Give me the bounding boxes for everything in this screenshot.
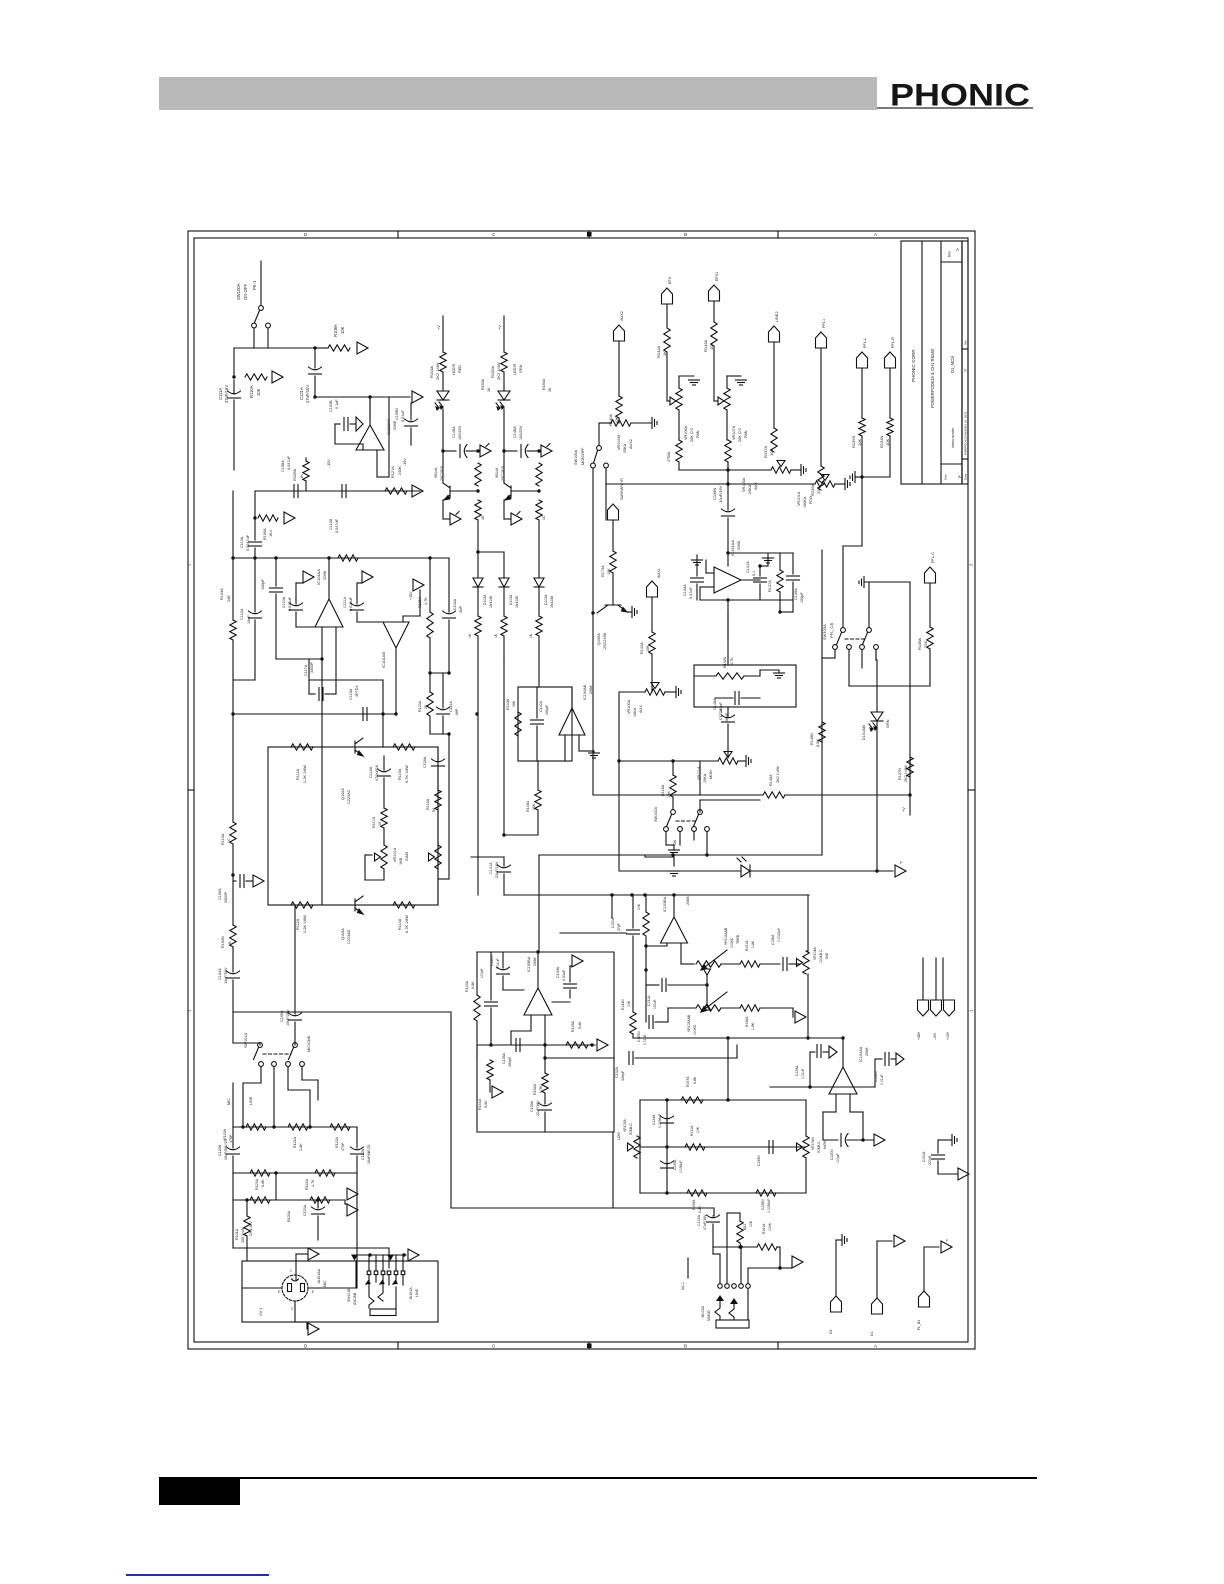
wire EQ row 3 — [640, 1192, 806, 1194]
resistor below base R105A — [536, 500, 542, 520]
ground pot y423 — [651, 418, 653, 429]
switch SW105A wires — [605, 468, 607, 484]
svg-text:R121A: R121A — [293, 1136, 297, 1148]
svg-text:R124A: R124A — [305, 1178, 309, 1190]
svg-text:0.0047uF: 0.0047uF — [246, 534, 250, 551]
svg-text:4-7K: 4-7K — [311, 1179, 315, 1187]
switch SW102A contact 3 — [692, 827, 697, 832]
diode column x478 — [473, 578, 483, 587]
wire XLR pin E left — [242, 1287, 282, 1289]
junction LED102A cathode — [502, 449, 505, 452]
fb box IC131AA — [694, 665, 796, 707]
svg-text:4-7K: 4-7K — [424, 597, 428, 605]
box IC105 bottom — [477, 1131, 614, 1133]
svg-text:R105A: R105A — [490, 365, 495, 378]
svg-text:G2: G2 — [829, 1329, 833, 1334]
resistor R144A — [649, 632, 655, 654]
svg-text:10K: 10K — [696, 1126, 700, 1133]
jack2 pin 1 — [718, 1284, 723, 1289]
svg-text:R151A: R151A — [745, 940, 749, 951]
resistor R106A — [305, 458, 307, 461]
svg-text:HIGH: HIGH — [823, 1140, 827, 1149]
XLR connector CH1 — [282, 1275, 308, 1301]
pentagon G1 — [872, 1298, 883, 1314]
capacitor C130A — [564, 983, 577, 985]
svg-text:C110A: C110A — [329, 518, 333, 530]
arrow C130A — [572, 955, 583, 967]
svg-text:AUX2: AUX2 — [629, 439, 633, 449]
svg-text:2068: 2068 — [865, 1048, 869, 1056]
svg-text:R110A: R110A — [249, 385, 254, 398]
trimmer VR106A wiper — [670, 397, 676, 405]
svg-text:20KA: 20KA — [748, 484, 752, 494]
svg-text:470P: 470P — [229, 1134, 233, 1143]
svg-text:100K: 100K — [768, 1222, 772, 1231]
svg-text:220uF: 220uF — [928, 1155, 932, 1165]
arrow XLR top — [308, 1248, 319, 1260]
IC105BA input wires — [530, 1015, 532, 1031]
wire XLR pin1 — [295, 1254, 297, 1280]
capacitor C139B2 — [768, 1141, 770, 1154]
svg-text:IC103BA: IC103BA — [663, 896, 667, 912]
ground y875 — [669, 870, 680, 872]
arrow small IC101AA — [303, 571, 314, 583]
svg-text:C142A: C142A — [539, 700, 543, 712]
resistor R125A — [250, 1197, 270, 1203]
svg-text:GRN: GRN — [886, 719, 890, 728]
svg-text:R113A: R113A — [221, 833, 225, 845]
wire jack2 pin2 long — [726, 1213, 728, 1283]
wire IC101AA in1 — [321, 627, 323, 659]
svg-text:IC101AB: IC101AB — [381, 652, 386, 668]
svg-text:C129A: C129A — [795, 1065, 799, 1076]
svg-text:22uF/16V: 22uF/16V — [495, 861, 499, 878]
svg-text:R118A: R118A — [661, 784, 665, 796]
resistor R160A — [737, 1221, 743, 1243]
svg-text:R121A: R121A — [391, 466, 395, 478]
switch SW103A link — [845, 638, 866, 640]
switch SW103A contact 3 — [860, 645, 865, 650]
svg-text:VR103AAB: VR103AAB — [687, 1014, 691, 1032]
capacitor C141A — [504, 450, 517, 452]
wire x612 stub — [611, 895, 613, 918]
wire x619 long vertical — [618, 692, 620, 871]
jack long contact 1 — [369, 1284, 374, 1308]
wire x295 column — [294, 905, 296, 1014]
arrow y1045 — [597, 1039, 608, 1051]
svg-text:+48V: +48V — [917, 1031, 921, 1040]
svg-text:of: of — [964, 369, 968, 372]
svg-text:EFX: EFX — [668, 276, 672, 284]
trimmer VR106A — [676, 388, 682, 410]
resistor below diode x539 — [536, 616, 542, 636]
pentagon PL-B — [919, 1291, 930, 1307]
svg-text:2K: 2K — [424, 704, 428, 709]
svg-text:0.01uF: 0.01uF — [801, 1068, 805, 1079]
ground near VR107A — [736, 379, 747, 381]
switch SW102A pivot 2 — [698, 810, 703, 815]
svg-text:D103A: D103A — [544, 594, 548, 605]
svg-text:R123A: R123A — [255, 1178, 259, 1190]
IC103BA inputs — [666, 943, 668, 946]
pot VR102A — [771, 467, 791, 473]
junction Q105A emitter — [591, 611, 594, 614]
svg-text:0.047uF: 0.047uF — [287, 455, 291, 470]
op-amp IC105BA — [524, 988, 552, 1015]
svg-text:0.01uF: 0.01uF — [496, 958, 500, 969]
svg-text:R145A: R145A — [769, 774, 773, 786]
capacitor C136B — [782, 958, 784, 971]
svg-text:4-7K: 4-7K — [730, 657, 734, 665]
drop from bus — [254, 491, 256, 518]
svg-text:2068: 2068 — [686, 897, 690, 905]
inner frame — [194, 238, 968, 1342]
svg-text:C130N: C130N — [556, 966, 560, 978]
switch SW103A contact 4 — [874, 645, 879, 650]
svg-text:D103A: D103A — [509, 594, 513, 605]
wire bus y714 — [233, 713, 396, 715]
svg-text:F: F — [946, 1239, 949, 1243]
switch SW100A wire in — [260, 261, 262, 305]
svg-text:10K: 10K — [749, 1220, 753, 1227]
connector PFL-R — [885, 352, 896, 368]
svg-text:24K: 24K — [227, 595, 231, 602]
arrow 2 near IC134AA — [896, 1053, 904, 1065]
svg-text:R143A: R143A — [465, 980, 469, 992]
jack long contact 2 — [378, 1284, 383, 1301]
svg-text:1-8K: 1-8K — [751, 1022, 755, 1030]
svg-text:C134A: C134A — [652, 1114, 656, 1125]
wire C114A — [442, 673, 444, 708]
connector EFX1 — [709, 285, 720, 301]
svg-text:CH:1: CH:1 — [259, 1308, 263, 1316]
wire fb bottom — [700, 599, 793, 601]
transistor Q102A — [354, 741, 356, 753]
svg-text:R102N: R102N — [221, 936, 225, 948]
ground stub 1 — [835, 1244, 837, 1296]
svg-text:+V: +V — [498, 325, 502, 330]
resistor R154A — [630, 1012, 636, 1034]
capacitor C141B — [754, 577, 767, 579]
capacitor C114B — [356, 599, 358, 604]
svg-text:PFL1: PFL1 — [822, 319, 826, 328]
capacitor C129A — [816, 1045, 818, 1058]
svg-text:5-6K: 5-6K — [484, 1100, 488, 1108]
pot VR101A — [815, 481, 835, 487]
switch SW101A pivot 2 — [293, 1043, 298, 1048]
svg-text:0.0056uF: 0.0056uF — [658, 1114, 662, 1128]
svg-text:4K: 4K — [481, 515, 485, 520]
arrow XLR bottom — [308, 1323, 319, 1335]
resistor R102A — [230, 925, 236, 947]
TRS jack pins — [367, 1271, 371, 1275]
svg-text:VR100A: VR100A — [627, 699, 631, 714]
capacitor C112A — [254, 558, 256, 612]
svg-text:D101AM: D101AM — [862, 725, 866, 740]
wire column R104A — [442, 316, 444, 352]
capacitor C106A — [270, 587, 283, 589]
svg-text:LOW: LOW — [617, 1131, 621, 1140]
capacitor C140A — [443, 450, 456, 452]
svg-text:C141A: C141A — [746, 561, 750, 573]
svg-text:10uF/16V: 10uF/16V — [718, 485, 723, 503]
capacitor C120A — [227, 1147, 240, 1150]
IC102AA input chain — [335, 423, 340, 425]
wire XLR pin3 — [294, 1301, 296, 1322]
svg-text:R108A: R108A — [333, 324, 338, 337]
svg-text:R109A: R109A — [263, 528, 267, 540]
svg-text:R156A: R156A — [745, 1016, 749, 1027]
svg-text:PFL-C: PFL-C — [931, 552, 935, 563]
pot VR104A — [803, 951, 809, 974]
resistor R156A row2 — [721, 1007, 740, 1009]
wire x451 long — [450, 1012, 452, 1208]
svg-text:100KB-C: 100KB-C — [819, 949, 823, 963]
svg-text:C146A: C146A — [513, 426, 517, 438]
svg-text:3: 3 — [291, 1307, 293, 1311]
svg-text:240K: 240K — [398, 466, 402, 475]
svg-text:A: A — [874, 1344, 877, 1349]
svg-text:100uF: 100uF — [719, 702, 723, 713]
switch SW102A link — [676, 820, 696, 822]
pot VR103AAB wiper diag — [701, 992, 727, 1012]
trimmer VR109A — [381, 845, 387, 869]
svg-text:6-8K: 6-8K — [698, 1205, 702, 1213]
resistor R123B ladder — [427, 692, 433, 716]
connector PFL-C — [925, 567, 936, 583]
arrow F1a — [541, 445, 552, 457]
svg-text:C115A: C115A — [349, 688, 353, 700]
switch SW103A pivot 1 — [841, 628, 846, 633]
wire bus y1087 — [770, 1086, 875, 1088]
connector arrow out 1 — [357, 342, 368, 354]
svg-text:50KB-C: 50KB-C — [629, 1123, 633, 1135]
jack sleeve bar — [370, 1309, 396, 1316]
arrow x420 — [413, 579, 424, 591]
capacitor C102B — [343, 418, 345, 431]
resistor R134N — [887, 418, 893, 436]
resistor R120A on bus — [338, 555, 358, 561]
capacitor C143A — [497, 967, 510, 970]
jack contact arrows — [368, 1275, 370, 1281]
wire bus y855 — [539, 854, 822, 856]
svg-text:R150A: R150A — [481, 378, 485, 390]
box IC105 top — [477, 951, 614, 953]
arrow y518 — [284, 512, 295, 524]
fb box around R140B/C142A — [518, 687, 572, 761]
svg-text:20K C/C: 20K C/C — [738, 427, 742, 442]
svg-text:+V: +V — [902, 807, 906, 812]
svg-text:R112A: R112A — [296, 918, 300, 930]
capacitor C121A — [314, 348, 316, 368]
svg-text:G1: G1 — [870, 1331, 874, 1336]
svg-text:22K: 22K — [923, 641, 928, 648]
capacitor C139B under — [544, 1045, 546, 1058]
svg-text:D: D — [304, 1344, 308, 1349]
svg-text:100KA: 100KA — [803, 496, 807, 508]
wire XLR pin E right — [308, 1287, 356, 1289]
resistor R140B — [515, 712, 521, 736]
svg-text:C108A: C108A — [281, 460, 285, 472]
IC134AA inputs — [835, 1094, 837, 1112]
svg-text:2K2 1/4W: 2K2 1/4W — [435, 362, 440, 380]
svg-text:R131A: R131A — [690, 1125, 694, 1136]
pot VR103AAB — [696, 1005, 721, 1011]
capacitor C122A right — [356, 1127, 358, 1148]
wire ladder y734 — [430, 733, 449, 735]
switch SW101A contact 1 — [259, 1062, 264, 1067]
pot VR102AAB — [696, 961, 721, 967]
svg-text:C131A: C131A — [647, 995, 651, 1006]
wire top jog y857 — [471, 856, 504, 858]
svg-text:MIC: MIC — [227, 1098, 231, 1105]
svg-text:AUX: AUX — [639, 705, 643, 713]
wire y1132 — [545, 1131, 613, 1133]
svg-text:6-8K: 6-8K — [693, 1076, 697, 1084]
resistor R142A — [664, 328, 670, 352]
svg-text:SW100A: SW100A — [236, 283, 241, 300]
svg-text:VR102AAB: VR102AAB — [724, 927, 728, 945]
resistor R101A 48V — [246, 1200, 248, 1216]
wire x476 long — [477, 660, 479, 895]
wire bus node A — [234, 347, 315, 349]
op-amp IC101AA — [315, 599, 343, 627]
svg-text:VR103A: VR103A — [742, 477, 746, 492]
svg-text:R137N: R137N — [898, 768, 902, 780]
resistor R101A — [244, 1216, 250, 1236]
svg-text:2-2K 1/8W: 2-2K 1/8W — [303, 915, 307, 933]
LED D102AM — [875, 650, 877, 660]
capacitor C115A — [362, 708, 364, 721]
svg-text:100pF: 100pF — [480, 968, 484, 978]
capacitor C118A — [432, 759, 445, 762]
svg-text:MONO: MONO — [707, 1310, 711, 1321]
wire x808 — [807, 895, 809, 951]
wire IC103BA out — [673, 895, 675, 917]
svg-text:R115A: R115A — [398, 768, 402, 780]
svg-text:R106A: R106A — [292, 468, 297, 481]
svg-text:LINE2: LINE2 — [775, 311, 779, 322]
capacitor C138A — [515, 1039, 517, 1052]
resistor R150B — [246, 1124, 266, 1130]
resistor R132A in box — [716, 673, 744, 679]
capacitor C129B — [645, 985, 647, 1022]
svg-text:Rev: Rev — [948, 251, 952, 257]
capacitor C135A — [691, 577, 704, 579]
wire column R105A — [503, 316, 505, 352]
arrow jack feed — [408, 1249, 419, 1261]
capacitor C141A col — [503, 857, 505, 866]
op-amp IC101AB — [383, 622, 409, 648]
svg-text:PK-1: PK-1 — [252, 280, 257, 290]
svg-text:6-8K: 6-8K — [816, 739, 820, 747]
resistor R141A — [819, 722, 825, 742]
svg-text:C132A: C132A — [615, 1066, 619, 1078]
svg-text:10K: 10K — [256, 388, 261, 396]
capacitor C110B — [295, 599, 297, 604]
cap arrow top 1 — [810, 1051, 815, 1053]
svg-text:6-7K 1/8W: 6-7K 1/8W — [405, 915, 409, 933]
svg-text:C105A: C105A — [218, 888, 222, 900]
wire y477 — [862, 476, 890, 478]
capacitor C123A — [317, 1200, 319, 1208]
wire left end bus y484 — [605, 484, 607, 520]
svg-text:0.47uF: 0.47uF — [689, 586, 693, 599]
svg-text:Date: Date — [964, 473, 968, 480]
op-amp IC102AA — [356, 425, 384, 450]
diode column x539 — [534, 578, 544, 587]
resistor R145A — [763, 792, 785, 798]
svg-text:C130A: C130A — [611, 917, 615, 928]
switch SW102A contact 1 — [664, 827, 669, 832]
resistor R172A — [610, 551, 616, 573]
left leg x233 — [232, 491, 234, 558]
svg-text:100/25V: 100/25V — [519, 425, 523, 440]
resistor R103A — [230, 620, 236, 640]
resistor R135N — [859, 418, 865, 436]
cap C130B fb — [822, 1135, 824, 1140]
arrow F pfl — [895, 865, 906, 877]
svg-text:JK101A: JK101A — [409, 1287, 413, 1300]
arrow C151A — [958, 1168, 969, 1180]
capacitor C112A — [249, 611, 262, 614]
svg-text:100pF: 100pF — [836, 1153, 840, 1163]
ground C141B — [763, 557, 774, 559]
wire y582 — [864, 581, 910, 583]
svg-text:VR111A: VR111A — [697, 766, 701, 780]
transistor Q105A base bar — [605, 604, 621, 606]
svg-text:A52: A52 — [743, 1224, 747, 1230]
svg-text:1: 1 — [290, 1269, 292, 1273]
svg-text:-15V: -15V — [933, 1032, 937, 1040]
arrow F0a — [480, 445, 491, 457]
svg-text:1K: 1K — [299, 474, 304, 479]
trimmer VR107A wiper — [718, 397, 724, 405]
svg-text:C123A: C123A — [303, 1204, 307, 1216]
svg-text:5-5K: 5-5K — [539, 1085, 543, 1093]
wire x539 — [538, 660, 540, 687]
svg-text:1NP: 1NP — [459, 605, 463, 613]
svg-text:SW103A: SW103A — [822, 624, 827, 640]
capacitor C105N col — [410, 403, 412, 420]
capacitor C129B — [648, 1016, 650, 1029]
wire wiper1 down — [706, 975, 708, 985]
svg-text:12K: 12K — [667, 791, 671, 798]
capacitor C117A row y691 — [309, 693, 315, 695]
op-amp IC134AA — [829, 1067, 857, 1094]
svg-text:1N4148: 1N4148 — [489, 596, 493, 608]
arrow EQ out — [795, 1011, 806, 1023]
switch SW103A contact wires — [834, 650, 836, 658]
svg-text:3300P: 3300P — [224, 892, 228, 903]
switch SW100A throw 2 — [266, 323, 271, 328]
jack2 pin 4 — [739, 1284, 744, 1289]
connector AUX1 — [647, 581, 658, 597]
switch SW100A throw 1 — [252, 323, 257, 328]
contact wires — [260, 1067, 262, 1083]
resistor R152A — [544, 1058, 546, 1073]
svg-text:150pF: 150pF — [508, 1056, 512, 1067]
wire IC104AB out — [571, 687, 573, 708]
svg-text:2068: 2068 — [736, 540, 741, 550]
wire IC105BA out — [537, 952, 539, 988]
pot VR111A — [718, 758, 738, 764]
footer rule — [240, 1477, 1037, 1479]
svg-text:2K2 1/4W: 2K2 1/4W — [776, 766, 780, 783]
svg-text:C139A: C139A — [530, 1100, 534, 1112]
wire x415 right box — [415, 746, 438, 748]
svg-text:470P: 470P — [341, 1142, 345, 1151]
